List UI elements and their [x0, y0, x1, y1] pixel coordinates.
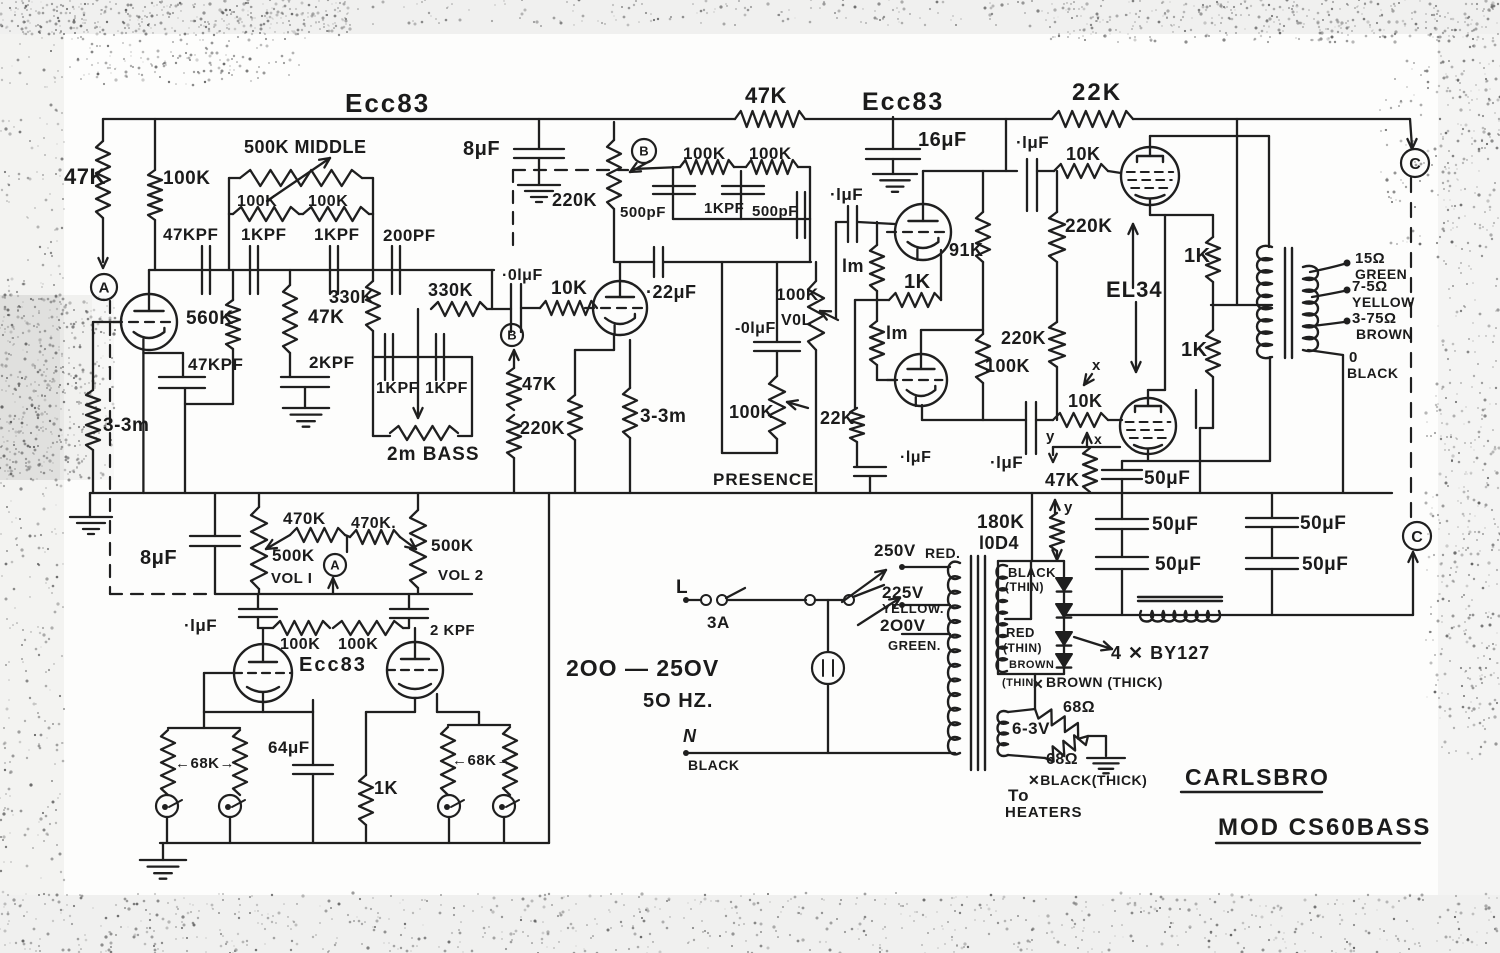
svg-text:500pF: 500pF [752, 203, 798, 220]
svg-text:470K.: 470K. [351, 515, 396, 532]
svg-text:y: y [1064, 499, 1073, 516]
svg-text:C: C [1411, 529, 1423, 546]
svg-text:✕BLACK(THICK): ✕BLACK(THICK) [1028, 772, 1147, 788]
svg-text:·0lμF: ·0lμF [502, 267, 543, 284]
svg-text:·lμF: ·lμF [900, 449, 931, 466]
svg-text:BLACK: BLACK [688, 757, 740, 773]
svg-text:x: x [1094, 431, 1102, 447]
svg-text:·22μF: ·22μF [646, 282, 697, 302]
svg-text:YELLOW: YELLOW [1352, 294, 1415, 310]
svg-text:RED: RED [1006, 625, 1035, 640]
svg-text:15Ω: 15Ω [1355, 250, 1385, 267]
svg-text:200PF: 200PF [383, 226, 436, 245]
svg-text:←68K→: ←68K→ [175, 755, 235, 772]
svg-text:50μF: 50μF [1302, 554, 1348, 575]
svg-text:220K: 220K [1001, 328, 1046, 348]
svg-text:10K: 10K [1066, 144, 1101, 164]
svg-text:2m BASS: 2m BASS [387, 444, 480, 465]
svg-text:7-5Ω: 7-5Ω [1352, 278, 1388, 295]
svg-text:8μF: 8μF [140, 547, 177, 569]
svg-text:100K: 100K [776, 285, 819, 304]
svg-text:8μF: 8μF [463, 138, 500, 160]
svg-text:BROWN (THICK): BROWN (THICK) [1046, 674, 1163, 690]
svg-text:MOD CS60BASS: MOD CS60BASS [1218, 814, 1431, 841]
svg-text:B: B [639, 144, 648, 159]
svg-text:HEATERS: HEATERS [1005, 804, 1083, 821]
svg-text:500K: 500K [272, 546, 315, 565]
svg-text:50μF: 50μF [1300, 513, 1346, 534]
svg-text:91K: 91K [949, 240, 984, 260]
svg-text:64μF: 64μF [268, 738, 310, 757]
svg-text:100K: 100K [749, 144, 792, 163]
svg-text:Ecc83: Ecc83 [345, 88, 430, 118]
svg-text:3-75Ω: 3-75Ω [1352, 310, 1397, 327]
svg-text:1K: 1K [1181, 339, 1208, 361]
svg-text:EL34: EL34 [1106, 277, 1163, 302]
svg-text:47K: 47K [522, 374, 557, 394]
svg-text:100K: 100K [338, 636, 378, 653]
svg-text:✕: ✕ [1032, 676, 1044, 692]
svg-text:50μF: 50μF [1155, 554, 1201, 575]
svg-text:·lμF: ·lμF [1016, 133, 1049, 152]
svg-text:·lμF: ·lμF [990, 453, 1023, 472]
svg-text:100K: 100K [237, 193, 277, 210]
svg-text:2KPF: 2KPF [309, 353, 354, 372]
svg-text:22K: 22K [820, 408, 855, 428]
svg-text:16μF: 16μF [918, 129, 967, 151]
svg-text:500pF: 500pF [620, 204, 666, 221]
svg-text:5O HZ.: 5O HZ. [643, 690, 713, 712]
svg-text:50μF: 50μF [1152, 514, 1198, 535]
svg-text:VOL I: VOL I [271, 570, 312, 587]
svg-text:(THIN): (THIN) [1005, 580, 1044, 594]
svg-text:BROWN: BROWN [1009, 659, 1054, 671]
svg-text:250V: 250V [874, 541, 916, 560]
svg-text:BLACK: BLACK [1347, 365, 1399, 381]
svg-text:CARLSBRO: CARLSBRO [1185, 764, 1330, 790]
svg-text:GREEN.: GREEN. [888, 638, 941, 653]
svg-text:47K: 47K [308, 307, 344, 328]
svg-text:50μF: 50μF [1144, 468, 1190, 489]
svg-text:100K: 100K [308, 193, 348, 210]
svg-text:3A: 3A [707, 613, 730, 632]
svg-text:C: C [1409, 156, 1421, 173]
svg-text:68Ω: 68Ω [1063, 699, 1095, 716]
svg-text:1KPF: 1KPF [241, 225, 286, 244]
svg-text:y: y [1046, 428, 1055, 445]
svg-text:(THIN): (THIN) [1003, 641, 1042, 655]
svg-text:A: A [330, 558, 340, 573]
svg-text:Ecc83: Ecc83 [862, 88, 944, 116]
svg-text:(THIN: (THIN [1002, 677, 1034, 689]
svg-text:10K: 10K [1068, 391, 1103, 411]
svg-text:To: To [1008, 786, 1030, 805]
svg-text:N: N [683, 726, 697, 746]
svg-text:VOL 2: VOL 2 [438, 567, 484, 584]
svg-text:220K: 220K [520, 418, 565, 438]
svg-text:3-3m: 3-3m [640, 406, 686, 427]
svg-text:10K: 10K [551, 278, 587, 299]
svg-text:100K: 100K [729, 402, 774, 422]
svg-text:·lμF: ·lμF [184, 616, 217, 635]
svg-text:1KPF: 1KPF [376, 380, 419, 397]
svg-text:lm: lm [842, 256, 864, 276]
svg-text:l0D4: l0D4 [979, 533, 1019, 553]
svg-text:6-3V: 6-3V [1012, 719, 1050, 738]
svg-text:100K: 100K [163, 168, 210, 189]
svg-text:4 ✕ BY127: 4 ✕ BY127 [1111, 643, 1210, 663]
svg-text:47K: 47K [1045, 470, 1080, 490]
svg-text:2 KPF: 2 KPF [430, 622, 475, 639]
svg-text:lm: lm [886, 323, 908, 343]
svg-text:330K: 330K [428, 280, 473, 300]
svg-text:·lμF: ·lμF [830, 185, 863, 204]
svg-text:47K: 47K [64, 164, 106, 189]
svg-text:560K: 560K [186, 308, 233, 329]
svg-text:Ecc83: Ecc83 [299, 654, 367, 676]
svg-text:L: L [676, 577, 688, 598]
svg-text:B: B [507, 328, 516, 343]
svg-text:0: 0 [1349, 349, 1358, 366]
svg-text:47KPF: 47KPF [188, 355, 243, 374]
svg-text:68Ω: 68Ω [1046, 751, 1078, 768]
svg-text:220K: 220K [1065, 216, 1112, 237]
svg-text:100K: 100K [985, 356, 1030, 376]
svg-text:500K: 500K [431, 536, 474, 555]
svg-text:1KPF: 1KPF [425, 380, 468, 397]
svg-text:A: A [99, 279, 110, 296]
svg-text:22K: 22K [1072, 79, 1122, 106]
svg-text:2OO — 25OV: 2OO — 25OV [566, 655, 719, 681]
svg-text:47KPF: 47KPF [163, 225, 218, 244]
svg-text:100K: 100K [280, 636, 320, 653]
svg-text:1K: 1K [904, 271, 931, 293]
svg-text:500K MIDDLE: 500K MIDDLE [244, 137, 367, 157]
svg-text:1K: 1K [374, 778, 398, 798]
svg-text:RED.: RED. [925, 545, 960, 561]
svg-text:BROWN: BROWN [1356, 326, 1413, 342]
svg-text:x: x [1092, 357, 1101, 374]
svg-text:470K: 470K [283, 509, 326, 528]
svg-text:1KPF: 1KPF [314, 225, 359, 244]
svg-text:1K: 1K [1184, 245, 1211, 267]
svg-text:2O0V: 2O0V [880, 616, 926, 635]
svg-text:1KPF: 1KPF [704, 200, 744, 217]
svg-text:-0lμF: -0lμF [735, 320, 776, 337]
svg-text:100K: 100K [683, 144, 726, 163]
svg-text:220K: 220K [552, 190, 597, 210]
svg-text:←68K→: ←68K→ [452, 752, 512, 769]
svg-text:V0L: V0L [781, 312, 812, 329]
svg-text:180K: 180K [977, 512, 1024, 533]
svg-text:PRESENCE: PRESENCE [713, 470, 815, 489]
svg-text:47K: 47K [745, 83, 787, 108]
svg-text:330K: 330K [329, 287, 374, 307]
